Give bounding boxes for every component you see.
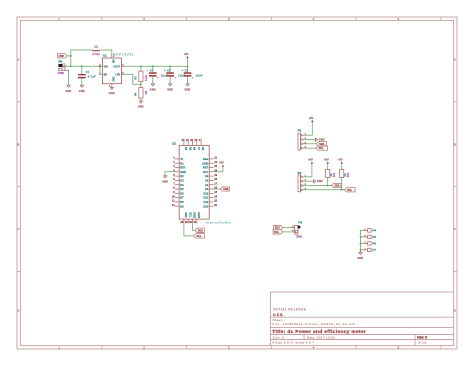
svg-text:SDA: SDA xyxy=(319,143,324,146)
svg-text:U.E.B.: U.E.B. xyxy=(273,313,284,317)
svg-text:MCP16251: MCP16251 xyxy=(113,52,135,56)
svg-text:SDA: SDA xyxy=(198,229,203,232)
svg-text:C1: C1 xyxy=(86,70,90,74)
svg-text:P7: P7 xyxy=(372,248,376,252)
svg-text:A: A xyxy=(17,58,19,62)
svg-text:SCL: SCL xyxy=(196,235,201,238)
svg-text:USB: USB xyxy=(59,55,64,58)
svg-text:INITIAL RELEASE: INITIAL RELEASE xyxy=(273,308,306,312)
svg-text:5.1M: 5.1M xyxy=(145,75,148,81)
svg-text:D: D xyxy=(17,308,19,312)
svg-text:SCL: SCL xyxy=(347,189,352,192)
svg-text:P6: P6 xyxy=(372,242,376,246)
svg-text:P8: P8 xyxy=(59,60,63,64)
svg-text:U1: U1 xyxy=(103,53,107,57)
svg-text:B: B xyxy=(454,142,456,146)
svg-text:2460: 2460 xyxy=(58,71,65,75)
svg-text:10K: 10K xyxy=(333,172,336,177)
svg-text:L1: L1 xyxy=(95,45,99,49)
svg-text:Title: dc Power and efficiency: Title: dc Power and efficiency meter xyxy=(272,329,366,335)
svg-text:SDA: SDA xyxy=(275,227,280,230)
svg-text:KiCad E.D.A. kicad 4.0.7: KiCad E.D.A. kicad 4.0.7 xyxy=(273,341,315,345)
svg-text:LFB: LFB xyxy=(116,73,121,76)
svg-text:SCL: SCL xyxy=(274,231,279,234)
svg-text:P4: P4 xyxy=(372,229,376,233)
svg-text:Rev: 0: Rev: 0 xyxy=(417,336,427,340)
svg-text:10K: 10K xyxy=(347,172,350,177)
svg-text:C: C xyxy=(454,227,456,231)
svg-text:1M: 1M xyxy=(145,91,148,94)
svg-text:Date: 2017-12-02: Date: 2017-12-02 xyxy=(307,335,335,339)
svg-text:D: D xyxy=(454,308,456,312)
svg-text:GND: GND xyxy=(112,77,114,82)
svg-text:10uF: 10uF xyxy=(195,73,203,77)
svg-text:Id: 1/1: Id: 1/1 xyxy=(418,341,427,345)
svg-text:ArduinoProMini: ArduinoProMini xyxy=(206,220,232,224)
svg-text:VOUT: VOUT xyxy=(113,65,120,68)
svg-text:P1: P1 xyxy=(298,128,302,132)
svg-text:4.7uF: 4.7uF xyxy=(87,75,96,79)
svg-text:A: A xyxy=(454,58,456,62)
svg-text:P2: P2 xyxy=(298,171,302,175)
svg-text:File: 20180531a_Project_MA219_: File: 20180531a_Project_MA219_01_A2.sch xyxy=(273,322,356,326)
svg-text:USB: USB xyxy=(223,188,228,191)
svg-text:P3: P3 xyxy=(298,220,302,224)
svg-text:U2: U2 xyxy=(172,142,176,146)
svg-text:VIN: VIN xyxy=(104,65,108,68)
svg-text:SDA: SDA xyxy=(334,185,339,188)
svg-text:EN: EN xyxy=(104,73,108,76)
svg-text:P5: P5 xyxy=(372,235,376,239)
svg-text:4.7uH: 4.7uH xyxy=(92,52,99,56)
svg-text:C: C xyxy=(17,227,19,231)
svg-text:Sheet: /: Sheet: / xyxy=(273,318,286,322)
svg-text:B: B xyxy=(17,142,19,146)
svg-text:Size: A: Size: A xyxy=(273,335,285,339)
svg-text:2461: 2461 xyxy=(296,234,303,238)
svg-text:SCL: SCL xyxy=(319,147,324,150)
